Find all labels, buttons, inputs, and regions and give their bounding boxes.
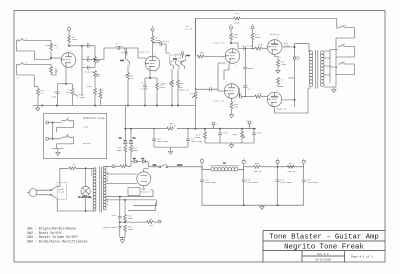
svg-text:240VAC: 240VAC bbox=[90, 168, 93, 176]
terminal E bbox=[242, 158, 245, 167]
wire J1 tip to grid rail bbox=[33, 41, 51, 60]
capacitor C16 bbox=[242, 167, 259, 205]
wire J2 tip bbox=[33, 65, 51, 106]
jack J5 16ohm bbox=[338, 24, 355, 38]
svg-text:0.022uF: 0.022uF bbox=[160, 40, 170, 43]
wire V1 cathode down bbox=[65, 67, 67, 84]
resistor R17 PI plate 2 bbox=[251, 33, 261, 41]
svg-text:100R: 100R bbox=[128, 228, 134, 231]
svg-text:10/01/2006: 10/01/2006 bbox=[315, 257, 332, 261]
wire bias ground bbox=[120, 237, 125, 239]
svg-text:22uF-450V: 22uF-450V bbox=[246, 181, 259, 184]
capacitor C23 decoupling bbox=[152, 128, 169, 147]
switch SW3 master bbox=[170, 55, 186, 61]
svg-text:Send: Send bbox=[83, 125, 89, 128]
switch SW5 power contacts bbox=[42, 186, 60, 198]
AC plug P1 bbox=[27, 189, 42, 197]
svg-text:25uF: 25uF bbox=[51, 96, 57, 99]
wire screen rail bbox=[282, 44, 296, 107]
svg-text:12AX7-T1: 12AX7-T1 bbox=[44, 44, 55, 47]
svg-text:50pF: 50pF bbox=[248, 67, 254, 70]
svg-text:100uF-100V: 100uF-100V bbox=[103, 226, 117, 229]
diode D3 bbox=[131, 157, 141, 163]
svg-text:250K-LIN: 250K-LIN bbox=[179, 88, 190, 91]
resistor R27 on bus bbox=[234, 12, 241, 24]
wire secondary taps bbox=[106, 174, 156, 214]
resistor R7 slope bbox=[86, 84, 96, 106]
resistor R22 V4 cathode bbox=[275, 55, 287, 71]
svg-text:Gnd: Gnd bbox=[99, 89, 104, 92]
OT marker bbox=[296, 56, 300, 60]
svg-text:10uF-450V: 10uF-450V bbox=[191, 140, 204, 143]
resistor R18 PI plate 1 bbox=[230, 33, 239, 43]
wire PI interconnect bbox=[210, 57, 225, 92]
node junction J2 bbox=[51, 70, 56, 75]
B+ terminal B (V2 supply) bbox=[151, 25, 154, 36]
capacitor C6 bbox=[121, 48, 131, 56]
jack J2 bbox=[16, 61, 33, 79]
capacitor C14 bbox=[103, 222, 122, 237]
svg-text:470K: 470K bbox=[86, 85, 92, 88]
capacitor C7 cathode bbox=[140, 78, 149, 106]
svg-text:SW2: SW2 bbox=[186, 54, 191, 57]
wire PI out upper bbox=[230, 42, 244, 48]
svg-text:R27: R27 bbox=[235, 12, 240, 15]
resistor R19 tail bbox=[230, 98, 239, 114]
svg-text:R11: R11 bbox=[162, 82, 167, 85]
svg-text:325-0-325: 325-0-325 bbox=[106, 171, 109, 182]
svg-text:10K: 10K bbox=[234, 105, 239, 108]
resistor R35 bbox=[124, 225, 134, 237]
svg-text:Tone Blaster - Guitar Amp: Tone Blaster - Guitar Amp bbox=[269, 234, 378, 242]
terminal F bbox=[200, 157, 203, 167]
capacitor C10 coupling lower bbox=[238, 92, 255, 98]
svg-text:100K: 100K bbox=[116, 149, 122, 152]
pot R14 presence bbox=[179, 86, 219, 98]
svg-text:1.5K-5W: 1.5K-5W bbox=[167, 124, 177, 127]
jack J4 return bbox=[46, 133, 92, 148]
resistor R37 input ground bbox=[37, 89, 45, 96]
wire V4 plate to OT bbox=[295, 44, 310, 51]
ground bus symbol bbox=[36, 106, 40, 112]
svg-text:0.02uF: 0.02uF bbox=[115, 45, 124, 48]
svg-text:Pre: Pre bbox=[189, 93, 194, 96]
terminal C lower bbox=[212, 122, 219, 129]
svg-text:NFB: NFB bbox=[200, 52, 205, 55]
jack J1 bbox=[16, 37, 33, 51]
svg-text:SW4: SW4 bbox=[153, 163, 158, 166]
capacitor C17 bbox=[276, 167, 293, 205]
svg-text:1K5: 1K5 bbox=[66, 91, 71, 94]
wire jack sleeves bbox=[334, 38, 338, 89]
capacitor C9 coupling upper bbox=[242, 44, 256, 50]
capacitor C15 bbox=[200, 167, 217, 205]
wire bias bottom bbox=[205, 143, 254, 145]
capacitor C13 bbox=[112, 214, 122, 223]
wire heater rail bbox=[125, 19, 256, 130]
capacitor C5 bbox=[115, 43, 125, 51]
wire decoupling bottom bbox=[154, 147, 188, 151]
svg-text:Heaters: Heaters bbox=[141, 191, 151, 194]
switch SW4 rectifier select bbox=[144, 162, 202, 169]
svg-text:Negrito Tone Freak: Negrito Tone Freak bbox=[284, 243, 364, 251]
jack J6 8ohm bbox=[338, 43, 355, 57]
jack J3 send bbox=[46, 117, 89, 132]
tube T3b phase inverter lower bbox=[213, 81, 239, 103]
svg-text:47uF: 47uF bbox=[257, 132, 263, 135]
capacitor C3 treble bbox=[87, 55, 96, 61]
ground PI tail bbox=[229, 115, 233, 118]
fuse F1 bbox=[69, 163, 76, 170]
choke L1 winding bbox=[202, 162, 244, 172]
ground bias bbox=[229, 145, 233, 148]
pot R11 master bbox=[162, 69, 173, 106]
resistor R32 rail bbox=[167, 122, 177, 130]
transformer OT1 primary bbox=[308, 51, 313, 88]
pot R5 treble bbox=[94, 46, 101, 68]
wire secondary taps bbox=[324, 50, 334, 88]
svg-text:100R: 100R bbox=[128, 217, 134, 220]
winding label 325V bbox=[106, 171, 109, 182]
svg-text:SW1: SW1 bbox=[120, 59, 125, 62]
terminal bias out bbox=[159, 220, 162, 223]
capacitor C18 bbox=[302, 167, 319, 205]
svg-text:Pre: Pre bbox=[150, 224, 155, 227]
diode D2 bbox=[129, 129, 136, 144]
terminal HT tap bbox=[106, 165, 120, 168]
wire rectifier heater bbox=[128, 190, 156, 211]
svg-text:12AX7-T3: 12AX7-T3 bbox=[213, 42, 224, 45]
svg-text:1.06K: 1.06K bbox=[78, 96, 85, 99]
B+ terminal D bbox=[251, 23, 254, 33]
wire loop tie bbox=[52, 122, 53, 140]
svg-text:12AX7-T3: 12AX7-T3 bbox=[213, 100, 224, 103]
resistor R36 bbox=[147, 219, 159, 228]
resistor R23 V4 screen bbox=[277, 78, 295, 87]
transformer PT1 core bbox=[100, 167, 102, 213]
svg-text:100K: 100K bbox=[72, 38, 78, 41]
wire tone out bbox=[94, 48, 118, 60]
wire mains top bbox=[60, 168, 93, 187]
capacitor C8 V2 out bbox=[160, 40, 170, 53]
svg-text:0.022uF: 0.022uF bbox=[85, 71, 95, 74]
resistor R34 bbox=[124, 214, 134, 224]
resistor R26 feedback bbox=[197, 52, 210, 59]
svg-text:10K-2W: 10K-2W bbox=[287, 170, 296, 173]
svg-text:0.68uF: 0.68uF bbox=[140, 88, 149, 91]
wire mains bottom bbox=[57, 196, 93, 212]
svg-text:562R: 562R bbox=[160, 86, 166, 89]
svg-text:Return: Return bbox=[83, 142, 92, 145]
capacitor C24 decoupling bbox=[186, 128, 203, 147]
terminal A2 bbox=[302, 158, 305, 167]
svg-text:10uF-450V: 10uF-450V bbox=[157, 140, 170, 143]
winding label 6.3VAC bbox=[106, 197, 109, 205]
wire V2 plate up bbox=[153, 43, 161, 57]
diode D4 bbox=[141, 157, 148, 163]
resistor R29 bbox=[130, 143, 139, 161]
wire cathode loop bbox=[58, 83, 73, 84]
tube V6 5AR4 rectifier bbox=[137, 169, 151, 191]
resistor R20 grid stopper upper bbox=[252, 40, 268, 50]
svg-text:82K: 82K bbox=[234, 36, 239, 39]
capacitor C2 coupling bbox=[82, 42, 95, 48]
wire ground bus bbox=[33, 105, 196, 106]
svg-text:22uF-450V: 22uF-450V bbox=[280, 181, 293, 184]
svg-text:Effects Loop: Effects Loop bbox=[84, 116, 105, 120]
choke L1 core bbox=[211, 165, 239, 167]
effects loop box bbox=[44, 114, 107, 159]
capacitor C20 balance lower bbox=[243, 86, 251, 97]
pot R13 boost + SW2 bbox=[181, 52, 191, 64]
pot R6 bass bbox=[94, 71, 101, 85]
svg-text:On-Off-Lamp: On-Off-Lamp bbox=[78, 195, 92, 198]
svg-text:SW4 - Diode/Valve Rectificatio: SW4 - Diode/Valve Rectification bbox=[27, 239, 88, 243]
wire top B+ bus bbox=[196, 19, 337, 57]
wire PI cathode chain bbox=[224, 63, 229, 80]
svg-text:47uF: 47uF bbox=[223, 132, 229, 135]
svg-text:R12: R12 bbox=[181, 82, 186, 85]
svg-text:50K: 50K bbox=[233, 133, 238, 136]
svg-text:5AR4: 5AR4 bbox=[177, 163, 183, 166]
capacitor C19 balance upper bbox=[243, 48, 253, 85]
svg-text:220R: 220R bbox=[281, 63, 287, 66]
wire bias tap bbox=[119, 221, 146, 222]
svg-text:0.1uF: 0.1uF bbox=[246, 44, 253, 47]
svg-text:100K: 100K bbox=[133, 149, 139, 152]
switch SW1b bbox=[120, 55, 129, 65]
tube T3a phase inverter upper bbox=[213, 42, 240, 68]
tube V4 EL84 upper bbox=[267, 33, 290, 59]
capacitor C11 bias bbox=[218, 129, 228, 143]
resistor R8B gnd leg bbox=[99, 89, 104, 106]
wire into V2 grid bbox=[125, 48, 146, 58]
resistor R21 grid stopper lower bbox=[255, 92, 268, 98]
svg-text:R30: R30 bbox=[255, 162, 260, 165]
resistor R28 bbox=[116, 143, 127, 166]
resistor R24 bbox=[195, 129, 207, 143]
svg-text:22uF-450V: 22uF-450V bbox=[306, 181, 319, 184]
pot R8 volume bbox=[125, 65, 134, 106]
resistor R9 V2 plate bbox=[151, 36, 161, 56]
svg-text:Page # 1 of 1: Page # 1 of 1 bbox=[351, 255, 373, 259]
tube V1 12AX7 bbox=[44, 44, 75, 69]
title block bbox=[263, 231, 385, 263]
svg-text:C13: C13 bbox=[112, 214, 117, 217]
capacitor C12 bias bbox=[252, 129, 262, 143]
tube V2 12AX7 bbox=[139, 51, 160, 74]
resistor R33 HT bbox=[120, 162, 131, 168]
svg-text:30K-2W: 30K-2W bbox=[253, 170, 262, 173]
resistor R31 bbox=[287, 162, 296, 173]
transformer PT1 primary bbox=[93, 168, 96, 211]
svg-text:220R: 220R bbox=[195, 136, 201, 139]
wire taps to jacks bbox=[330, 19, 338, 68]
tone stack left rail bbox=[81, 45, 87, 95]
switch SW3 contacts bbox=[170, 61, 185, 69]
capacitor C22 presence bbox=[210, 87, 211, 91]
terminal B lower bbox=[246, 120, 251, 130]
winding label 240VAC bbox=[90, 168, 93, 176]
wire B+ rail bbox=[244, 166, 304, 167]
resistor R10 cathode bbox=[156, 78, 166, 106]
ground OT secondary bbox=[332, 90, 336, 93]
switch SW5 power box bbox=[57, 183, 67, 200]
svg-text:6.3VAC: 6.3VAC bbox=[106, 197, 109, 205]
jack J7 4ohm bbox=[338, 61, 355, 75]
wire grid node bbox=[50, 57, 61, 58]
switch SW2 box bbox=[176, 54, 181, 59]
ground effects loop bbox=[52, 148, 63, 155]
svg-text:R20: R20 bbox=[258, 44, 263, 47]
ground filter bbox=[260, 205, 264, 209]
resistor R12 bbox=[177, 69, 186, 106]
transformer OT1 secondary bbox=[321, 51, 325, 87]
wire PI out lower bbox=[239, 88, 240, 97]
ground decoupling bbox=[168, 151, 172, 154]
transformer OT1 core bbox=[316, 50, 318, 89]
svg-text:SW-S5: SW-S5 bbox=[58, 190, 65, 193]
terminal B2 bbox=[276, 158, 279, 167]
svg-text:C10: C10 bbox=[238, 92, 243, 95]
wire V5 plate to OT bbox=[275, 88, 309, 113]
capacitor C4 bass bbox=[85, 66, 95, 74]
ground bias supply bbox=[120, 240, 124, 243]
wire filter bottom bus bbox=[202, 205, 304, 206]
svg-text:EL84-V5: EL84-V5 bbox=[277, 108, 287, 111]
svg-text:47uF-450V: 47uF-450V bbox=[205, 181, 218, 184]
capacitor C21 label bbox=[186, 25, 193, 30]
B+ terminal C bbox=[230, 23, 233, 33]
resistor R4 cathode bbox=[66, 84, 86, 106]
svg-text:Rev 0.0: Rev 0.0 bbox=[317, 253, 329, 256]
svg-text:EL84-V4: EL84-V4 bbox=[270, 33, 280, 36]
ground V4 cathode bbox=[276, 70, 280, 73]
B+ terminal A (V1 plate supply) bbox=[68, 25, 71, 36]
wire V2 cathode bbox=[145, 71, 157, 79]
resistor R2 bbox=[50, 65, 59, 76]
resistor R30 bbox=[253, 162, 262, 173]
svg-text:R21: R21 bbox=[258, 92, 263, 95]
svg-text:0.1uF: 0.1uF bbox=[186, 27, 193, 30]
resistor R1 bbox=[50, 41, 59, 59]
resistor R3 plate bbox=[68, 36, 78, 46]
svg-text:470R: 470R bbox=[234, 22, 240, 25]
wire V1 plate bbox=[68, 45, 82, 46]
lamp pilot bbox=[78, 186, 92, 198]
svg-text:R31: R31 bbox=[289, 162, 294, 165]
rectifier heater box bbox=[128, 188, 151, 196]
svg-text:100K: 100K bbox=[255, 36, 261, 39]
pot R25 hum bbox=[233, 129, 245, 143]
tube V5 EL84 lower bbox=[267, 89, 287, 111]
svg-text:12AX7-T2: 12AX7-T2 bbox=[139, 51, 150, 54]
diode D1 bbox=[119, 129, 127, 144]
capacitor C1 bypass bbox=[51, 84, 59, 106]
transformer PT1 secondary bbox=[103, 166, 106, 209]
